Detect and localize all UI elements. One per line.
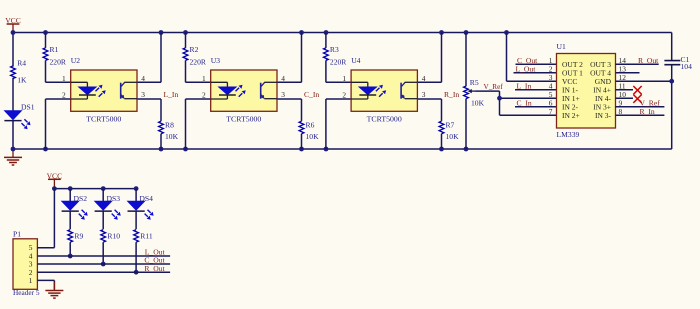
wire: pin 13 stub: [616, 72, 640, 74]
svg-text:10K: 10K: [446, 132, 460, 141]
svg-text:VCC: VCC: [47, 171, 63, 180]
svg-text:104: 104: [681, 62, 693, 71]
wire: R_Out row (pin 2): [37, 264, 170, 273]
svg-text:4: 4: [422, 74, 426, 83]
svg-text:3: 3: [281, 90, 285, 99]
U1 pin numbers left: [549, 56, 553, 116]
wire: pin 2 stub L_Out: [514, 64, 557, 73]
svg-text:R4: R4: [17, 59, 26, 68]
svg-text:R7: R7: [446, 120, 455, 129]
svg-text:U1: U1: [557, 42, 566, 51]
svg-text:R_In: R_In: [640, 107, 655, 116]
wire: VCC drop to pin 4: [277, 33, 302, 83]
pin 11 no-connect: [616, 86, 642, 94]
wire: VCC drop to pin 3: [507, 33, 557, 82]
pin 10 no-connect: [616, 95, 642, 103]
svg-text:L_In: L_In: [164, 90, 179, 99]
wire: pin 8 stub R_In: [616, 107, 665, 116]
svg-text:220R: 220R: [190, 58, 207, 67]
wire: pin 1 stub C_Out: [516, 56, 557, 65]
svg-text:1K: 1K: [17, 75, 27, 84]
connector P1 Header 5: [13, 230, 40, 298]
ground (main rail, left): [4, 149, 22, 165]
svg-text:R3: R3: [330, 45, 339, 54]
wire: pin3 output / node R_In: [417, 99, 441, 149]
svg-text:DS3: DS3: [107, 194, 121, 203]
wire: pin3 output / node C_In: [277, 99, 302, 149]
svg-text:R10: R10: [107, 232, 120, 241]
wire: pin2 to GND rail: [326, 99, 351, 149]
svg-text:U2: U2: [71, 56, 80, 65]
svg-text:1: 1: [62, 74, 66, 83]
svg-text:V_Ref: V_Ref: [484, 83, 504, 91]
wire: left vertical R4/DS1 branch: [12, 33, 14, 150]
junction dots bottom rail: [11, 147, 469, 152]
svg-text:DS1: DS1: [21, 102, 35, 111]
potentiometer R5: [464, 78, 485, 107]
opto sensor U2 TCRT5000: [62, 56, 145, 124]
wire: bottom VCC rail: [52, 186, 139, 191]
svg-text:3: 3: [141, 90, 145, 99]
wire: pin 12 to GND vertical: [616, 79, 675, 84]
resistor R10: [101, 230, 120, 267]
op-amp U1 body: [557, 42, 616, 139]
svg-text:R2: R2: [190, 45, 199, 54]
svg-text:TCRT5000: TCRT5000: [86, 115, 121, 124]
svg-text:L_In: L_In: [517, 81, 532, 90]
resistor R2: [183, 45, 207, 67]
resistor R7: [439, 120, 459, 141]
svg-text:TCRT5000: TCRT5000: [367, 115, 402, 124]
svg-text:TCRT5000: TCRT5000: [226, 115, 261, 124]
wire: pin2 to GND rail: [186, 99, 211, 149]
ground (header): [45, 282, 63, 298]
wire: pin 4 stub L_In: [515, 81, 557, 90]
svg-text:DS2: DS2: [74, 194, 88, 203]
U1 pin numbers right: [619, 56, 627, 116]
resistor R4: [11, 59, 27, 85]
svg-text:R1: R1: [50, 45, 59, 54]
capacitor C1: [664, 55, 692, 71]
svg-text:LM339: LM339: [557, 130, 580, 139]
wire: pin2 to GND rail: [46, 99, 71, 149]
resistor R11: [134, 230, 153, 275]
resistor R6: [299, 120, 319, 141]
svg-text:IN 2+: IN 2+: [562, 111, 580, 120]
resistor R9: [68, 230, 84, 259]
LED DS2 branch: [62, 189, 88, 230]
LED DS3 branch: [95, 189, 121, 230]
wire: pin 6 stub C_In: [515, 98, 557, 107]
wire: L_Out row (pin 4): [37, 248, 170, 257]
wire: R2 column: [186, 33, 211, 83]
svg-text:R8: R8: [165, 120, 174, 129]
svg-text:7: 7: [549, 107, 553, 116]
svg-text:R11: R11: [140, 232, 153, 241]
svg-text:1: 1: [342, 74, 346, 83]
svg-text:R_Out: R_Out: [638, 56, 659, 65]
svg-text:220R: 220R: [330, 58, 347, 67]
svg-text:Header 5: Header 5: [13, 288, 40, 297]
resistor R3: [324, 45, 348, 67]
svg-text:U4: U4: [351, 56, 360, 65]
wire: pin 14 stub R_Out: [616, 56, 660, 65]
wire: R3 column: [326, 33, 351, 83]
svg-text:10K: 10K: [471, 99, 485, 108]
wire: C_Out row (pin 3): [37, 256, 170, 265]
svg-text:2: 2: [62, 91, 66, 100]
svg-text:L_Out: L_Out: [516, 64, 537, 73]
LED DS1: [4, 102, 34, 129]
wire: wiper to pins 5 and 7: [476, 91, 557, 115]
svg-text:R5: R5: [470, 78, 479, 87]
svg-text:IN 3-: IN 3-: [595, 111, 612, 120]
opto sensor U3 TCRT5000: [202, 56, 285, 124]
wire: pin 9 stub V_Ref: [616, 98, 665, 107]
opto sensor U4 TCRT5000: [342, 56, 425, 124]
svg-text:2: 2: [342, 91, 346, 100]
svg-text:3: 3: [422, 90, 426, 99]
svg-text:1: 1: [29, 276, 33, 285]
svg-text:R6: R6: [306, 120, 315, 129]
wire: VCC top rail: [13, 32, 672, 34]
svg-text:4: 4: [281, 74, 285, 83]
wire: header pin 5 to VCC: [37, 189, 54, 248]
wire: GND bottom rail: [13, 148, 672, 150]
wire: VCC drop to pin 4: [137, 33, 161, 83]
svg-text:VCC: VCC: [5, 16, 21, 25]
wire: VCC drop to pin 4: [417, 33, 441, 83]
junction dots top rail: [11, 30, 509, 35]
resistor R8: [159, 120, 179, 141]
svg-text:DS4: DS4: [139, 194, 153, 203]
svg-text:4: 4: [141, 74, 145, 83]
svg-text:C_In: C_In: [517, 98, 532, 107]
resistor R1: [43, 45, 67, 67]
wire: pin3 output / node L_In: [137, 99, 161, 149]
svg-text:10K: 10K: [165, 132, 179, 141]
power VCC (top left): [5, 16, 21, 33]
svg-text:U3: U3: [211, 56, 220, 65]
svg-text:R9: R9: [74, 232, 83, 241]
wire: header pin 1 to ground: [37, 280, 54, 289]
wire: R5 column: [465, 33, 467, 150]
svg-text:R_Out: R_Out: [144, 264, 165, 273]
wire: right vertical (VCC to C1, C1 to GND rail): [671, 33, 673, 150]
svg-text:1: 1: [202, 74, 206, 83]
svg-text:10K: 10K: [306, 132, 320, 141]
svg-text:R_In: R_In: [444, 90, 459, 99]
svg-text:2: 2: [202, 91, 206, 100]
power VCC (bottom): [47, 171, 63, 187]
LED DS4 branch: [128, 189, 154, 230]
svg-text:220R: 220R: [50, 58, 67, 67]
junction (wiper/pin5): [497, 96, 502, 101]
svg-text:P1: P1: [13, 230, 21, 239]
wire: R1 column: [46, 33, 71, 83]
svg-text:C_In: C_In: [304, 90, 319, 99]
